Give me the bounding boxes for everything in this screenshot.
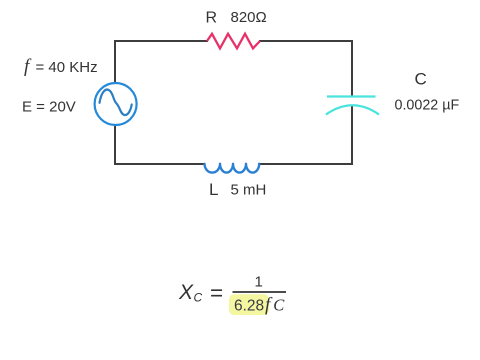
- svg-text:E = 20V: E = 20V: [22, 99, 76, 116]
- svg-text:= 40 KHz: = 40 KHz: [36, 59, 98, 76]
- svg-text:0.0022 µF: 0.0022 µF: [395, 97, 460, 113]
- svg-text:C: C: [273, 295, 285, 314]
- svg-text:R: R: [206, 9, 218, 26]
- svg-text:C: C: [194, 291, 203, 305]
- svg-text:820Ω: 820Ω: [231, 9, 267, 26]
- svg-text:=: =: [210, 280, 223, 305]
- svg-text:6.28: 6.28: [234, 298, 264, 315]
- svg-text:X: X: [178, 281, 194, 304]
- svg-text:1: 1: [255, 274, 263, 291]
- svg-text:L: L: [209, 180, 218, 199]
- svg-text:5 mH: 5 mH: [231, 182, 267, 199]
- svg-text:C: C: [415, 70, 427, 89]
